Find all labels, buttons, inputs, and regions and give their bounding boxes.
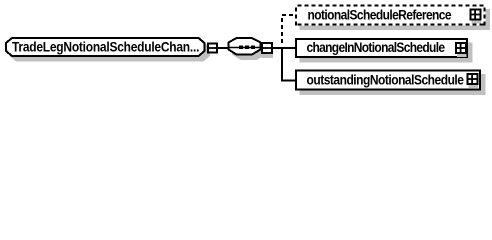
element outstandingNotionalSchedule bbox=[296, 71, 486, 96]
svg-text:changeInNotionalSchedule: changeInNotionalSchedule bbox=[307, 39, 445, 55]
svg-text:notionalScheduleReference: notionalScheduleReference bbox=[308, 7, 452, 23]
root element TradeLegNotionalScheduleChange bbox=[6, 38, 209, 61]
wire root to sequence bbox=[218, 47, 229, 49]
collapse box (minus) on sequence bbox=[262, 43, 273, 58]
svg-text:outstandingNotionalSchedule: outstandingNotionalSchedule bbox=[307, 72, 464, 88]
expand box (plus) on changeInNotionalSchedule bbox=[456, 43, 467, 57]
wire sequence to branch point bbox=[273, 47, 284, 49]
element changeInNotionalSchedule bbox=[296, 39, 473, 63]
sequence compositor (octagon with three dots) bbox=[229, 38, 266, 59]
branch wire (solid) down to outstandingNotionalSchedule bbox=[282, 47, 296, 81]
element notionalScheduleReference (optional, dashed box) bbox=[295, 5, 490, 31]
svg-text:TradeLegNotionalScheduleChan..: TradeLegNotionalScheduleChan... bbox=[12, 39, 199, 55]
expand box (plus) on notionalScheduleReference bbox=[471, 10, 482, 24]
collapse box (minus) on root element bbox=[208, 44, 217, 53]
expand box (plus) on outstandingNotionalSchedule bbox=[468, 74, 479, 88]
wire to changeInNotionalSchedule bbox=[283, 47, 296, 49]
branch wire (dashed) to optional child notionalScheduleReference bbox=[282, 15, 296, 46]
